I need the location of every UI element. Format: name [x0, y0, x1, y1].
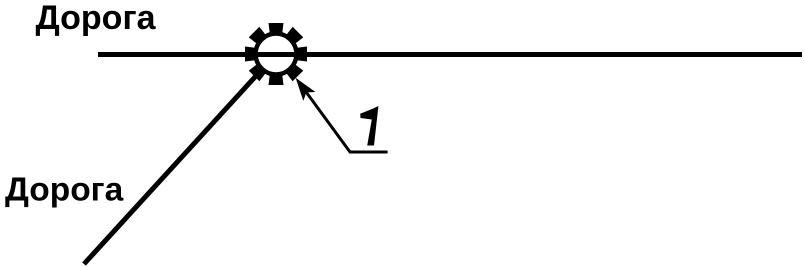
- label 1 (callout number, italic digit): [360, 106, 378, 146]
- wire: diagonal road line: [84, 74, 258, 264]
- svg-text:Дорога: Дорога: [5, 172, 124, 209]
- leader arrow for callout 1: [296, 78, 388, 152]
- node: junction symbol (gear circle U-turn sign): [245, 23, 307, 85]
- svg-text:Дорога: Дорога: [36, 0, 157, 37]
- label "Дорога" (lower road): [5, 172, 124, 209]
- wire: horizontal road line: [98, 52, 802, 57]
- label "Дорога" (upper road): [36, 0, 157, 37]
